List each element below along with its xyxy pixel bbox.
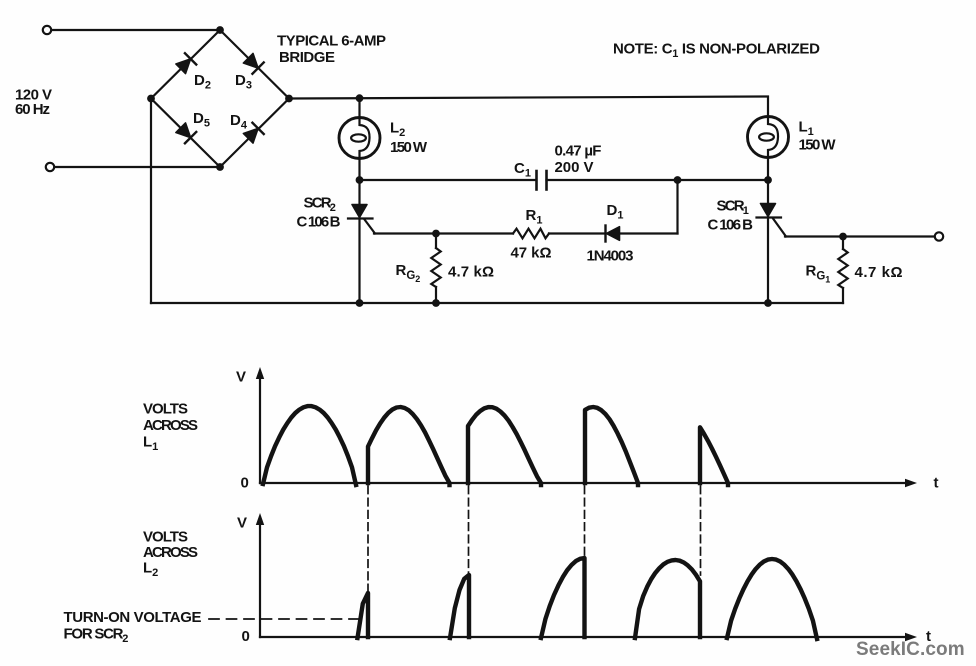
svg-text:TYPICAL 6-AMP: TYPICAL 6-AMP (277, 33, 386, 50)
svg-text:L2: L2 (143, 560, 158, 580)
node bridge left (147, 95, 155, 103)
wire (left vertical to bottom rail) (150, 99, 152, 304)
diode D1 (606, 226, 620, 242)
axis t (plot 1) (260, 475, 939, 492)
svg-text:4.7 kΩ: 4.7 kΩ (448, 264, 494, 281)
node bridge right (285, 95, 293, 103)
node SCR2 cathode/rail (356, 299, 364, 307)
svg-text:C 106 B: C 106 B (297, 214, 341, 231)
capacitor C1 (537, 171, 547, 190)
svg-text:SeekIC.com: SeekIC.com (856, 639, 965, 660)
wire (D1 branch up to C1 rail) (676, 180, 678, 234)
axis t (plot 2) (260, 628, 931, 645)
dashed timing line 2 (468, 486, 470, 573)
svg-text:D4: D4 (230, 112, 248, 132)
svg-text:L1: L1 (143, 434, 158, 454)
dashed turn-on voltage level (209, 618, 358, 620)
terminal T2 (AC input bottom) (46, 163, 54, 171)
wire (358, 98, 360, 117)
node C1/D1 branch (674, 176, 682, 184)
waveform L2 pulse 5 (727, 559, 817, 639)
wire (SCR1 gate to output) (785, 235, 935, 237)
diode D5 (175, 122, 196, 143)
dashed timing line 4 (700, 486, 702, 575)
svg-text:D2: D2 (194, 72, 211, 92)
svg-text:ACROSS: ACROSS (143, 417, 198, 434)
svg-text:VOLTS: VOLTS (143, 529, 188, 546)
svg-text:RG2: RG2 (396, 262, 421, 284)
wire (SCR2 gate rail) (374, 232, 513, 234)
svg-text:0: 0 (241, 475, 249, 492)
svg-text:4.7 kΩ: 4.7 kΩ (855, 264, 904, 281)
wire (358, 159, 360, 181)
waveform L1 pulse 2 (368, 407, 450, 485)
svg-text:0.47 µF: 0.47 µF (555, 143, 602, 160)
svg-text:L2: L2 (390, 120, 405, 140)
svg-text:R1: R1 (526, 207, 543, 227)
svg-text:200 V: 200 V (555, 159, 594, 176)
SCR2 (348, 180, 375, 303)
diode D3 (243, 53, 264, 74)
waveform L1 pulse 5 (700, 427, 728, 485)
node RG2 top (432, 230, 440, 238)
svg-text:C 106 B: C 106 B (708, 217, 754, 234)
axis V (plot 1) (236, 367, 264, 492)
node L1/SCR1 (764, 176, 772, 184)
svg-text:D3: D3 (235, 72, 252, 92)
resistor RG2 (431, 234, 440, 304)
diode D2 (175, 53, 196, 74)
diode D4 (243, 123, 264, 144)
wire (620, 232, 678, 234)
svg-text:C1: C1 (514, 160, 531, 180)
node bridge top (216, 26, 224, 34)
svg-text:FOR SCR2: FOR SCR2 (64, 626, 129, 646)
wire (52, 29, 219, 31)
waveform L2 pulse 2 (450, 575, 469, 638)
node L2/C1/SCR2 (356, 176, 364, 184)
waveform L1 pulse 4 (585, 407, 638, 485)
waveform L1 pulse 1 (263, 406, 356, 485)
svg-text:TURN-ON VOLTAGE: TURN-ON VOLTAGE (64, 609, 202, 626)
waveform L2 pulse 4 (635, 560, 700, 638)
node L2 tap (356, 94, 364, 102)
svg-text:150 W: 150 W (799, 137, 837, 154)
node RG1 top (839, 233, 847, 241)
waveform L2 pulse 1 (358, 593, 369, 638)
svg-text:150 W: 150 W (390, 139, 428, 156)
svg-text:D1: D1 (607, 202, 624, 222)
wire (bottom rail) (151, 302, 843, 304)
wire (549, 232, 604, 234)
svg-text:0: 0 (242, 628, 250, 645)
wire (767, 158, 769, 181)
wire (mid rail left of C1) (360, 179, 537, 181)
svg-text:RG1: RG1 (806, 263, 831, 285)
svg-text:L1: L1 (799, 119, 814, 139)
svg-text:SCR1: SCR1 (717, 198, 749, 218)
resistor RG1 (838, 237, 847, 304)
svg-text:D5: D5 (193, 110, 210, 130)
dashed timing line 1 (367, 486, 369, 591)
svg-text:NOTE: C1 IS NON-POLARIZED: NOTE: C1 IS NON-POLARIZED (613, 41, 820, 61)
svg-text:V: V (236, 369, 246, 386)
node RG2 bottom (432, 299, 440, 307)
wire (mid rail right of C1) (547, 179, 769, 181)
waveform L1 pulse 3 (468, 407, 541, 485)
waveform L2 pulse 3 (541, 558, 585, 638)
terminal T1 (AC input top) (43, 26, 51, 34)
svg-text:ACROSS: ACROSS (143, 544, 198, 561)
svg-text:t: t (934, 475, 939, 492)
wire (55, 166, 219, 168)
svg-text:V: V (237, 515, 247, 532)
dashed timing line 3 (584, 486, 586, 556)
bridge diamond wires (151, 30, 289, 167)
node bridge bottom (216, 163, 224, 171)
resistor R1 (513, 229, 549, 239)
lamp L1 (748, 117, 789, 158)
axis V (plot 2) (237, 513, 264, 645)
svg-text:BRIDGE: BRIDGE (279, 49, 335, 66)
node SCR1 cathode/rail (764, 299, 772, 307)
svg-text:VOLTS: VOLTS (143, 401, 188, 418)
svg-text:47 kΩ: 47 kΩ (511, 245, 552, 262)
svg-text:1N4003: 1N4003 (587, 248, 634, 265)
SCR1 (757, 180, 787, 303)
svg-text:SCR2: SCR2 (304, 195, 336, 215)
terminal T3 (gate output) (935, 232, 943, 240)
wire (top rail to L1) (289, 97, 768, 117)
lamp L2 (339, 118, 380, 159)
svg-text:60 Hz: 60 Hz (15, 101, 49, 118)
